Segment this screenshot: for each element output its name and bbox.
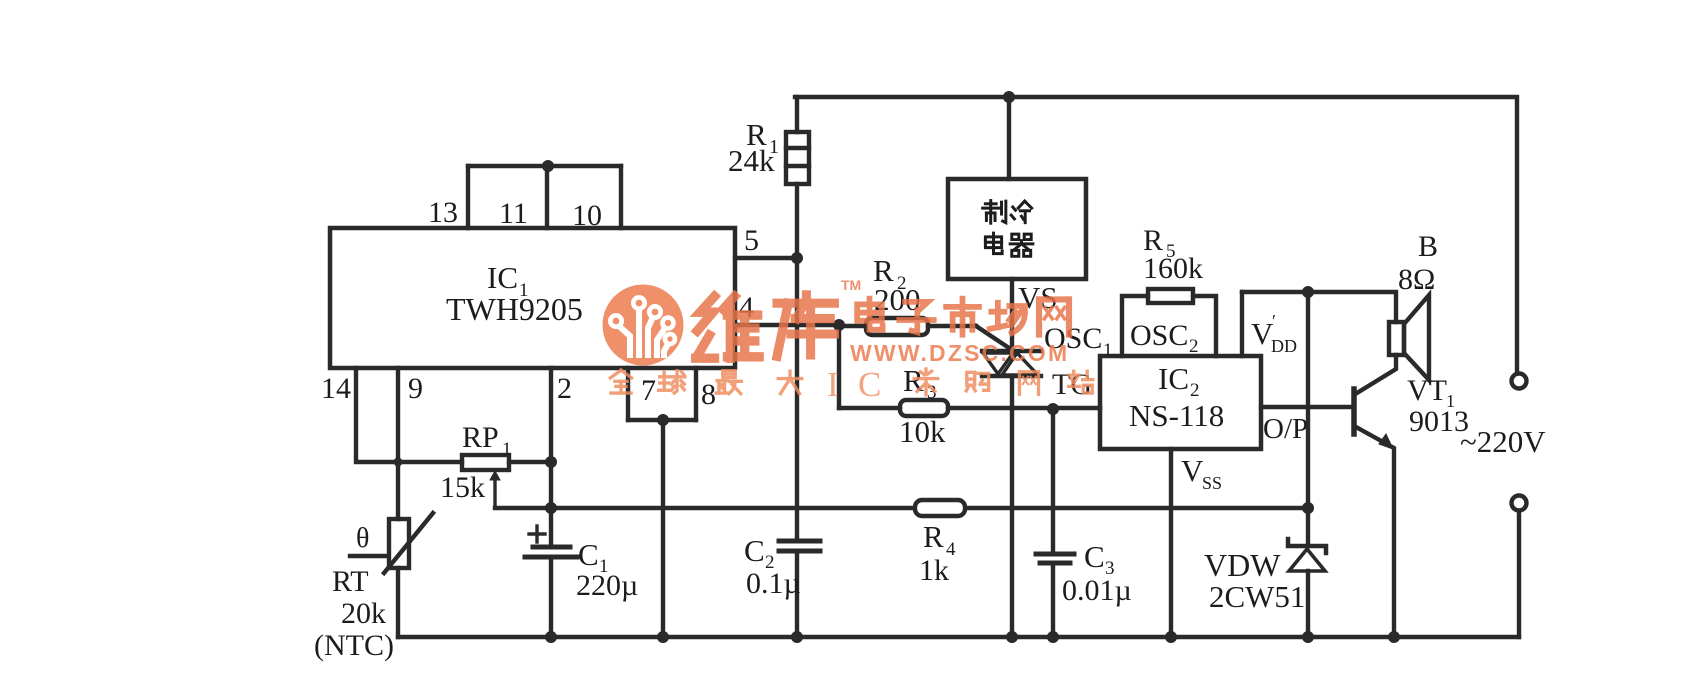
wire top supply rail (795, 97, 1517, 373)
svg-text:TWH9205: TWH9205 (446, 291, 583, 327)
svg-text:IC: IC (487, 260, 518, 295)
wire R1 to C2 vertical (795, 184, 799, 541)
svg-text:0.1µ: 0.1µ (746, 567, 801, 600)
svg-text:θ: θ (356, 523, 369, 554)
wire pin 5 (735, 256, 797, 260)
label C1 220u (576, 537, 638, 602)
terminal AC upper (1512, 374, 1527, 389)
wire VDD to speaker (1242, 292, 1396, 322)
svg-text:0.01µ: 0.01µ (1062, 574, 1132, 607)
resistor R4 (915, 500, 965, 516)
label R2 200 (873, 253, 921, 317)
svg-text:14: 14 (321, 372, 351, 405)
svg-text:C: C (858, 365, 881, 404)
svg-text:10k: 10k (899, 414, 946, 449)
wire triac gate lead (976, 326, 1012, 350)
svg-text:2: 2 (1189, 336, 1199, 357)
node pins 13-11-10 junction (542, 160, 554, 172)
svg-text:DD: DD (1271, 336, 1297, 356)
svg-text:20k: 20k (341, 597, 386, 630)
wire pin 8 (694, 368, 698, 420)
svg-text:IC: IC (1158, 361, 1189, 396)
capacitor C2 (779, 541, 820, 637)
svg-text:8: 8 (701, 378, 716, 411)
svg-text:RT: RT (332, 565, 369, 598)
svg-text:11: 11 (499, 197, 528, 230)
watermark big text 维库电子市场网 (696, 295, 835, 358)
svg-text:5: 5 (744, 224, 759, 257)
svg-text:I: I (827, 365, 839, 404)
resistor R1 (786, 97, 809, 184)
wire mid rail (495, 506, 1308, 510)
svg-text:TM: TM (841, 277, 861, 293)
wire pin 14 (356, 368, 462, 462)
label VSS (1181, 453, 1222, 493)
wire branch to cooling appliance (1007, 97, 1011, 179)
box text 制冷电器 (983, 201, 1033, 257)
wire pins7-8 to ground (661, 420, 665, 637)
resistor R2 (839, 318, 976, 335)
resistor R3 (839, 400, 1100, 416)
label OSC1 (1044, 322, 1113, 361)
wire pin 13 (466, 166, 470, 228)
diode VDW zener (1288, 539, 1326, 637)
svg-text:OSC: OSC (1130, 319, 1188, 352)
svg-text:′: ′ (1272, 311, 1276, 331)
svg-text:C: C (1084, 539, 1105, 574)
wire O/P base lead (1261, 405, 1354, 409)
svg-text:15k: 15k (440, 471, 485, 504)
wire VDD riser (1240, 292, 1244, 356)
wire pin 9 (396, 368, 400, 519)
svg-text:O/P: O/P (1263, 413, 1308, 445)
svg-text:B: B (1418, 230, 1438, 263)
node pin5-R1 junction (791, 252, 803, 264)
transistor VT1 (1354, 389, 1394, 637)
node top rail junction (1003, 91, 1015, 103)
watermark slogan 全球最大IC采购网站 (610, 369, 1092, 395)
wire pin 2 / C1 top (549, 368, 553, 547)
label VT1 9013 (1407, 374, 1469, 438)
node ground junctions (545, 631, 1400, 643)
wire VSS pin to ground (1169, 449, 1173, 637)
svg-text:8Ω: 8Ω (1398, 263, 1435, 296)
svg-text:WWW.DZSC.COM: WWW.DZSC.COM (850, 340, 1069, 366)
label R1 (728, 117, 779, 178)
node pins7-8 junction (657, 414, 669, 426)
svg-text:C: C (744, 533, 765, 568)
svg-text:RP: RP (462, 421, 499, 454)
svg-text:2CW51: 2CW51 (1209, 579, 1305, 614)
label IC1 (487, 260, 529, 301)
wire OSC1 pin (1122, 296, 1148, 356)
watermark logo circle (603, 285, 684, 366)
svg-text:(NTC): (NTC) (314, 629, 394, 662)
label VDD (1251, 311, 1297, 356)
svg-text:24k: 24k (728, 143, 775, 178)
label R4 1k (919, 519, 956, 587)
svg-text:220µ: 220µ (576, 569, 638, 602)
svg-text:1: 1 (1103, 340, 1113, 361)
label IC2 (1158, 361, 1200, 401)
capacitor C1 electrolytic (525, 526, 577, 637)
box cooling appliance 制冷电器 (948, 179, 1086, 279)
node pin4 junction (833, 319, 845, 331)
label OSC2 (1130, 319, 1199, 357)
potentiometer RP1 (462, 455, 551, 508)
svg-text:~220V: ~220V (1460, 424, 1546, 459)
svg-text:7: 7 (641, 374, 656, 407)
label R5 160k (1143, 224, 1203, 285)
label R3 10k (899, 363, 946, 449)
node VSS-zener junction (1302, 502, 1314, 514)
op-amp IC1 TWH9205 box (330, 228, 735, 368)
wire bottom ground rail (398, 635, 1519, 639)
node VDD junction (1302, 286, 1314, 298)
thyristor VS (triac) (982, 279, 1041, 637)
wire collector lead (1357, 355, 1396, 393)
label RP1 (462, 421, 512, 460)
op-amp IC2 NS-118 box (1100, 356, 1261, 449)
svg-text:160k: 160k (1143, 252, 1203, 285)
wire zener branch (1306, 292, 1310, 546)
node C1 junction (545, 502, 557, 514)
svg-text:9: 9 (408, 372, 423, 405)
wire OSC2 pin (1193, 296, 1216, 356)
svg-text:NS-118: NS-118 (1129, 398, 1224, 433)
node TG junction (1047, 403, 1059, 415)
thermistor RT (350, 513, 433, 637)
wire top pins link (468, 164, 621, 168)
svg-text:SS: SS (1202, 473, 1222, 493)
terminal AC lower (1512, 496, 1527, 638)
label C2 0.1u (744, 533, 801, 600)
capacitor C3 (1036, 409, 1074, 637)
label C3 0.01u (1062, 539, 1132, 607)
wire pin 7 (626, 368, 630, 420)
node RP1-pin2 junction (545, 456, 557, 468)
wire pins 7-8 link (628, 418, 696, 422)
resistor R5 (1148, 289, 1193, 303)
wire pin 10 (619, 166, 623, 228)
svg-text:R: R (903, 363, 924, 398)
svg-text:V: V (1181, 453, 1204, 488)
svg-text:1: 1 (502, 439, 512, 460)
wire R2-R3 left link (837, 325, 841, 408)
svg-text:R: R (923, 519, 944, 554)
svg-text:1k: 1k (919, 554, 949, 587)
watermark slogan I C (827, 365, 881, 404)
speaker B (1389, 295, 1429, 380)
svg-text:2: 2 (557, 372, 572, 405)
node pin14-pin9 crossing (394, 458, 403, 467)
wire pin 4 (735, 323, 839, 327)
svg-text:10: 10 (572, 199, 602, 232)
svg-text:13: 13 (428, 196, 458, 229)
svg-text:VT: VT (1407, 374, 1447, 407)
wire pin 11 (545, 166, 549, 228)
svg-text:VDW: VDW (1204, 547, 1281, 583)
svg-text:C: C (578, 537, 599, 572)
